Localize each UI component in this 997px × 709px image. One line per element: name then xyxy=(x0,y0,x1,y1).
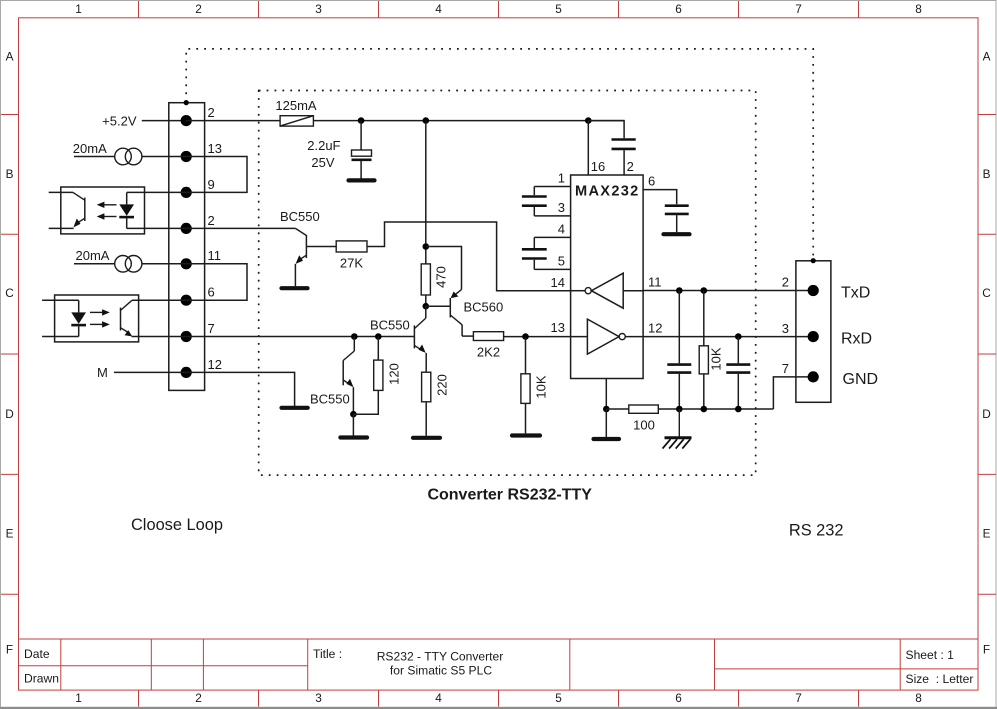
capacitor C7 2.2uF 25V (electrolytic) xyxy=(352,121,372,179)
current source B2 (two circles) xyxy=(115,255,132,272)
svg-text:2: 2 xyxy=(208,213,215,228)
junction: rail / C5 xyxy=(676,406,683,413)
junction: TxD / R8 xyxy=(701,287,708,294)
wire +5.2V to connector xyxy=(142,120,186,122)
svg-text:2.2uF: 2.2uF xyxy=(307,138,340,153)
wire R2 bottom to junction xyxy=(425,295,427,306)
svg-text:8: 8 xyxy=(915,2,922,16)
wire +5.2V J1 pin2 to fuse xyxy=(186,120,280,122)
wire B2 to J1 pin 11 xyxy=(142,263,186,265)
optocoupler OK2 body xyxy=(55,295,139,342)
svg-text:11: 11 xyxy=(208,248,222,263)
svg-text:8: 8 xyxy=(915,691,922,705)
wire M to J1 pin 12 xyxy=(114,371,186,373)
wire Q3 emitter junction to ground xyxy=(352,414,354,435)
svg-text:1: 1 xyxy=(75,691,82,705)
svg-text:125mA: 125mA xyxy=(275,98,317,113)
svg-text:BC550: BC550 xyxy=(310,391,350,406)
transistor Q4 BC560 (PNP) xyxy=(426,290,462,337)
svg-text:25V: 25V xyxy=(311,155,334,170)
junction: 470 top / BC560 emitter branch xyxy=(423,243,430,250)
svg-text:6: 6 xyxy=(648,174,655,189)
current source B1 (two circles) xyxy=(115,148,132,165)
svg-text:13: 13 xyxy=(208,141,222,156)
junction: Q3 emitter / R3 bottom xyxy=(350,411,357,418)
svg-text:for Simatic S5 PLC: for Simatic S5 PLC xyxy=(390,664,492,678)
OK2 phototransistor xyxy=(121,300,133,336)
svg-text:10K: 10K xyxy=(534,375,549,398)
svg-text:E: E xyxy=(983,526,991,540)
capacitor C2 (pin4 to pin5) xyxy=(522,237,547,269)
svg-text:E: E xyxy=(6,526,14,540)
resistor R7 100 xyxy=(629,405,659,413)
resistor R5 2K2 xyxy=(473,332,503,341)
U1 pin 6 stub xyxy=(643,190,677,205)
svg-text:2: 2 xyxy=(195,691,202,705)
wire OK1 diode anode to J1 pin 9 xyxy=(127,191,187,193)
wire R3 top xyxy=(377,337,379,361)
svg-text:5: 5 xyxy=(558,253,565,268)
junction: rail / 2.2uF xyxy=(358,117,365,124)
transistor Q3 BC550 xyxy=(343,351,354,414)
svg-text:+5.2V: +5.2V xyxy=(102,113,137,128)
svg-text:2: 2 xyxy=(627,159,634,174)
ground G5 (R4) xyxy=(413,436,440,440)
ground G8 (U1 pin15) xyxy=(594,437,620,441)
J1 pin 2 (opto) xyxy=(181,223,192,234)
ground G2 (M) xyxy=(282,406,308,410)
svg-text:3: 3 xyxy=(315,691,322,705)
resistor R4 220 xyxy=(422,372,431,402)
junction: pin7 line / R3 120 xyxy=(375,333,382,340)
J2 pin 7 (GND) xyxy=(808,371,819,382)
resistor R8 10K (TxD to rail) xyxy=(699,291,708,410)
wire loop pin13 to pin9 xyxy=(186,157,247,193)
svg-text:Title :: Title : xyxy=(313,647,342,661)
junction: rail / pin16 xyxy=(585,117,592,124)
wire OK2 collector to J1 pin 6 xyxy=(132,299,186,301)
J1 pin 13 xyxy=(181,151,192,162)
svg-text:120: 120 xyxy=(387,363,402,385)
svg-text:Date: Date xyxy=(24,647,50,661)
svg-text:7: 7 xyxy=(208,321,215,336)
OK2 photodiode xyxy=(42,300,86,336)
wire J1 pin2 to Q1 base xyxy=(186,227,295,229)
svg-text:D: D xyxy=(982,407,991,421)
svg-text:100: 100 xyxy=(633,418,655,433)
svg-text:20mA: 20mA xyxy=(76,248,110,263)
capacitor C4 (pin6 to ground) xyxy=(665,206,689,233)
wire B1 to J1 pin 13 xyxy=(142,156,186,158)
svg-text:7: 7 xyxy=(795,2,802,16)
svg-text:6: 6 xyxy=(675,691,682,705)
svg-text:BC550: BC550 xyxy=(370,318,410,333)
resistor R6 10K xyxy=(521,374,530,404)
capacitor C1 (pin1 to pin3) xyxy=(522,187,547,216)
wire R1 to MAX232 pin 14 xyxy=(367,222,571,291)
U1 inverter A (pin14 to pin11) xyxy=(571,273,644,308)
wire loop pin11 to pin6 xyxy=(186,264,247,300)
svg-text:7: 7 xyxy=(782,361,789,376)
junction: rail / R8 xyxy=(701,406,708,413)
connector J2 (RS232) body xyxy=(796,261,831,403)
svg-text:4: 4 xyxy=(435,2,442,16)
ground G1 (Q1 emitter) xyxy=(282,286,308,290)
svg-text:4: 4 xyxy=(435,691,442,705)
svg-text:6: 6 xyxy=(675,2,682,16)
J1 pin 12 (M) xyxy=(181,367,192,378)
wire into B2 xyxy=(74,263,115,265)
earth symbol (hatched) xyxy=(663,409,692,449)
OK2 light arrows xyxy=(90,309,110,327)
J1 pin 6 xyxy=(181,295,192,306)
svg-text:RS 232: RS 232 xyxy=(789,522,844,540)
svg-text:F: F xyxy=(6,643,13,657)
svg-text:10K: 10K xyxy=(709,347,724,370)
wire R5 to MAX232 pin 13 xyxy=(504,336,571,338)
junction: RxD / C6 xyxy=(735,333,742,340)
svg-text:7: 7 xyxy=(795,691,802,705)
svg-text:Converter RS232-TTY: Converter RS232-TTY xyxy=(427,487,592,504)
transistor Q1 BC550 xyxy=(295,228,336,286)
svg-text:Cloose Loop: Cloose Loop xyxy=(131,516,223,534)
U1 pin 5 stub xyxy=(534,268,570,270)
svg-text:13: 13 xyxy=(551,320,565,335)
svg-text:3: 3 xyxy=(315,2,322,16)
capacitor C5 (TxD to rail) xyxy=(667,291,691,410)
svg-text:D: D xyxy=(5,407,14,421)
junction: R2 / Q2 collector / Q4 base xyxy=(423,303,430,310)
wire U1 pin11 to J2 TxD xyxy=(643,290,808,292)
OK1 phototransistor xyxy=(49,192,85,228)
wire pin15 to ground xyxy=(605,409,607,437)
U1 pin 16 stub xyxy=(587,121,589,175)
MAX232 U1 body xyxy=(571,175,644,379)
resistor R2 470 xyxy=(421,264,430,295)
svg-text:1: 1 xyxy=(558,171,565,186)
svg-text:B: B xyxy=(983,167,991,181)
wire J1 pin7 to Q2 base xyxy=(186,336,414,338)
ground G3 (2.2uF) xyxy=(349,178,375,182)
svg-text:RxD: RxD xyxy=(841,331,872,348)
bottom rail wire xyxy=(606,408,629,410)
junction: 2K2 / 10K xyxy=(522,333,529,340)
svg-text:Size : Letter: Size : Letter xyxy=(906,672,974,686)
transistor Q2 BC550 xyxy=(414,306,426,372)
svg-text:A: A xyxy=(983,50,991,64)
svg-text:GND: GND xyxy=(843,371,879,388)
wire Q4 collector to R5 2K2 xyxy=(462,335,473,337)
svg-text:16: 16 xyxy=(591,159,605,174)
svg-text:27K: 27K xyxy=(340,256,363,271)
svg-text:2K2: 2K2 xyxy=(477,344,500,359)
ground G6 (R6) xyxy=(512,433,540,437)
wire +5.2V rail xyxy=(313,120,624,122)
wire R3 bottom to Q3 emitter junction xyxy=(353,390,378,414)
resistor R3 120 xyxy=(374,360,383,390)
title block xyxy=(19,639,979,690)
wire rail to J2 GND xyxy=(773,377,808,409)
J2 pin 3 (RxD) xyxy=(808,331,819,342)
svg-text:BC560: BC560 xyxy=(464,299,504,314)
svg-text:5: 5 xyxy=(555,691,562,705)
fuse F1 125mA xyxy=(280,116,313,126)
svg-text:2: 2 xyxy=(782,275,789,290)
capacitor C3 (pin16 to pin2) xyxy=(588,121,635,175)
svg-text:2: 2 xyxy=(195,2,202,16)
svg-text:Sheet : 1: Sheet : 1 xyxy=(906,648,955,662)
svg-text:12: 12 xyxy=(648,321,662,336)
wire U1 pin12 to J2 RxD xyxy=(643,336,808,338)
junction: pin15 / bottom rail xyxy=(603,406,610,413)
wire OK2 emitter to J1 pin 7 xyxy=(132,336,187,338)
J1 pin 11 xyxy=(181,258,192,269)
svg-text:4: 4 xyxy=(558,221,565,236)
svg-text:14: 14 xyxy=(551,275,565,290)
capacitor C6 (RxD to rail) xyxy=(726,337,750,409)
svg-text:3: 3 xyxy=(782,321,789,336)
ground G4 (Q3) xyxy=(340,435,367,439)
svg-text:220: 220 xyxy=(435,374,450,396)
svg-text:Drawn: Drawn xyxy=(24,672,59,686)
svg-text:9: 9 xyxy=(208,177,215,192)
svg-text:12: 12 xyxy=(208,357,222,372)
svg-text:A: A xyxy=(6,50,14,64)
svg-text:M: M xyxy=(97,365,108,380)
svg-text:5: 5 xyxy=(555,2,562,16)
optocoupler OK1 body xyxy=(61,187,145,234)
U1 pin 4 stub xyxy=(534,236,570,238)
J1 pin 9 xyxy=(181,187,192,198)
OK1 light arrows xyxy=(97,202,117,220)
junction: rail / 470 branch xyxy=(423,117,430,124)
wire OK1 diode cathode to J1 pin 2 xyxy=(127,227,187,229)
svg-text:F: F xyxy=(983,643,990,657)
svg-text:6: 6 xyxy=(208,285,215,300)
J1 pin 7 xyxy=(181,331,192,342)
svg-text:20mA: 20mA xyxy=(73,141,107,156)
svg-text:RS232 - TTY Converter: RS232 - TTY Converter xyxy=(377,650,504,664)
junction: TxD / C5 xyxy=(676,287,683,294)
converter boundary dotted box xyxy=(259,91,756,476)
wire R4 to ground xyxy=(425,402,427,436)
wire J1 pin 12 to ground xyxy=(186,372,294,406)
svg-text:11: 11 xyxy=(648,275,662,290)
wire junction to R6 10K xyxy=(525,337,527,374)
wire R6 to ground xyxy=(525,403,527,433)
svg-text:C: C xyxy=(982,286,991,300)
svg-text:BC550: BC550 xyxy=(280,209,320,224)
node: cable shield junction on J1 xyxy=(184,100,189,105)
OK1 photodiode xyxy=(119,192,134,228)
svg-text:MAX232: MAX232 xyxy=(575,183,640,199)
wire +5V to R2 470 xyxy=(425,121,427,264)
svg-text:1: 1 xyxy=(75,2,82,16)
U1 pin 3 stub xyxy=(534,215,570,217)
U1 pin 15 stub (GND) xyxy=(605,379,607,410)
ground G7 (C4) xyxy=(664,232,690,236)
svg-text:3: 3 xyxy=(558,200,565,215)
J2 pin 2 (TxD) xyxy=(808,285,819,296)
wire into B1 xyxy=(74,156,115,158)
svg-text:C: C xyxy=(5,286,14,300)
junction: pin7 line / Q3 collector xyxy=(351,333,358,340)
svg-text:B: B xyxy=(6,167,14,181)
svg-text:TxD: TxD xyxy=(841,285,870,302)
node: cable shield junction on J2 xyxy=(811,258,816,263)
svg-text:2: 2 xyxy=(208,105,215,120)
junction: rail / C6 xyxy=(735,406,742,413)
resistor R1 27K xyxy=(336,241,367,252)
connector J1 (TTY side) body xyxy=(169,103,205,391)
wire 470-top to Q4 emitter xyxy=(426,247,462,290)
wire pin7-line junction down to Q3 xyxy=(353,337,355,352)
U1 pin 1 stub xyxy=(534,186,570,188)
cable boundary dotted line (left connector to RS232 connector) xyxy=(186,49,813,261)
J1 pin 2 (+5.2V) xyxy=(181,115,192,126)
U1 inverter B (pin13 to pin12) xyxy=(571,319,644,354)
svg-text:470: 470 xyxy=(434,266,449,288)
